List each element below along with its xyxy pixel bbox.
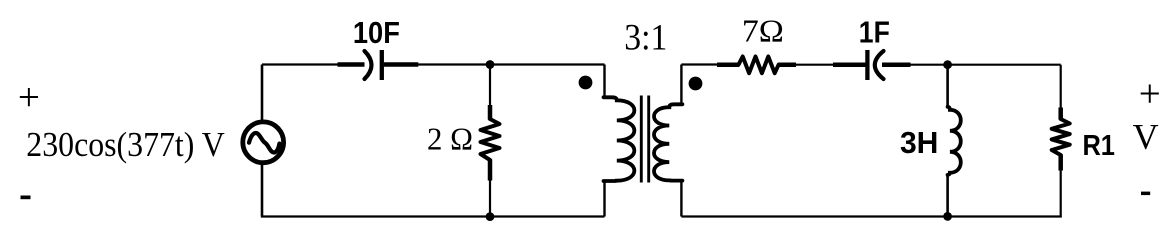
- transformer primary top vertical: [603, 65, 605, 99]
- wire 2-ohm bottom stub: [489, 179, 491, 217]
- svg-text:2 Ω: 2 Ω: [427, 122, 473, 157]
- wire right vertical R1 branch: [1060, 65, 1062, 108]
- resistor 7ohm right lead: [778, 62, 796, 67]
- wire 2-ohm top stub: [489, 65, 491, 107]
- resistor 7ohm left lead: [717, 62, 739, 67]
- transformer primary winding: [604, 97, 635, 181]
- transformer primary bottom vertical: [603, 180, 605, 217]
- wire bottom-right: [681, 215, 1061, 217]
- wire 7ohm to 1F: [795, 64, 834, 66]
- capacitor C1 left lead: [338, 62, 365, 67]
- svg-text:7Ω: 7Ω: [742, 14, 784, 49]
- svg-text:3:1: 3:1: [624, 17, 667, 58]
- resistor R1 top lead: [1058, 108, 1063, 120]
- resistor R 2ohm zigzag: [481, 119, 500, 160]
- capacitor 1F right lead: [882, 62, 911, 67]
- capacitor 1F left lead: [833, 62, 866, 67]
- svg-text:R1: R1: [1082, 130, 1115, 162]
- transformer core line right: [647, 96, 650, 183]
- inductor 3H bottom stub: [946, 174, 949, 217]
- svg-text:10F: 10F: [353, 15, 400, 50]
- transformer secondary bottom vertical: [680, 180, 682, 217]
- junction dot top of 3H: [943, 60, 952, 69]
- wire secondary top to 7ohm: [681, 63, 718, 65]
- inductor 3H coil: [948, 107, 961, 175]
- source V1 circle: [243, 122, 284, 163]
- transformer secondary winding: [654, 104, 682, 180]
- wire 1F to 3H junction: [910, 64, 1061, 66]
- svg-text:1F: 1F: [859, 14, 890, 49]
- wire R1 bottom: [1060, 170, 1062, 217]
- capacitor 1F curved plate: [875, 51, 884, 79]
- capacitor C1 right lead: [384, 62, 419, 67]
- resistor 7ohm zigzag: [739, 57, 779, 74]
- source V1 sine: [249, 133, 279, 153]
- svg-text:V: V: [1133, 116, 1159, 156]
- inductor 3H top stub: [946, 65, 949, 108]
- junction dot bottom of 2ohm: [486, 212, 495, 221]
- svg-text:230cos(377t) V: 230cos(377t) V: [26, 125, 225, 164]
- resistor R 2ohm top lead: [488, 105, 493, 120]
- junction dot bottom of 3H: [943, 212, 952, 221]
- transformer secondary top vertical: [680, 65, 682, 106]
- wire top-left from source to capacitor: [262, 63, 340, 65]
- capacitor C1 straight plate: [380, 50, 384, 80]
- capacitor 1F straight plate: [865, 50, 869, 80]
- svg-text:+: +: [18, 76, 40, 119]
- wire bottom-left: [261, 215, 605, 217]
- svg-text:+: +: [1139, 72, 1161, 115]
- capacitor C1 curved plate: [365, 51, 372, 79]
- resistor R 2ohm bottom lead: [488, 160, 493, 181]
- junction dot top of 2ohm: [486, 60, 495, 69]
- wire source vertical top: [261, 65, 264, 124]
- label minus right: [1141, 192, 1150, 196]
- resistor R1 zigzag: [1052, 119, 1070, 155]
- label minus left: [21, 196, 31, 200]
- polarity dot primary: [579, 76, 593, 90]
- polarity dot secondary: [689, 77, 703, 91]
- wire source vertical bottom: [261, 162, 264, 217]
- svg-text:3H: 3H: [900, 125, 939, 160]
- wire capacitor to transformer primary top: [418, 63, 605, 65]
- transformer core line left: [640, 96, 643, 183]
- resistor R1 bottom lead: [1058, 155, 1063, 171]
